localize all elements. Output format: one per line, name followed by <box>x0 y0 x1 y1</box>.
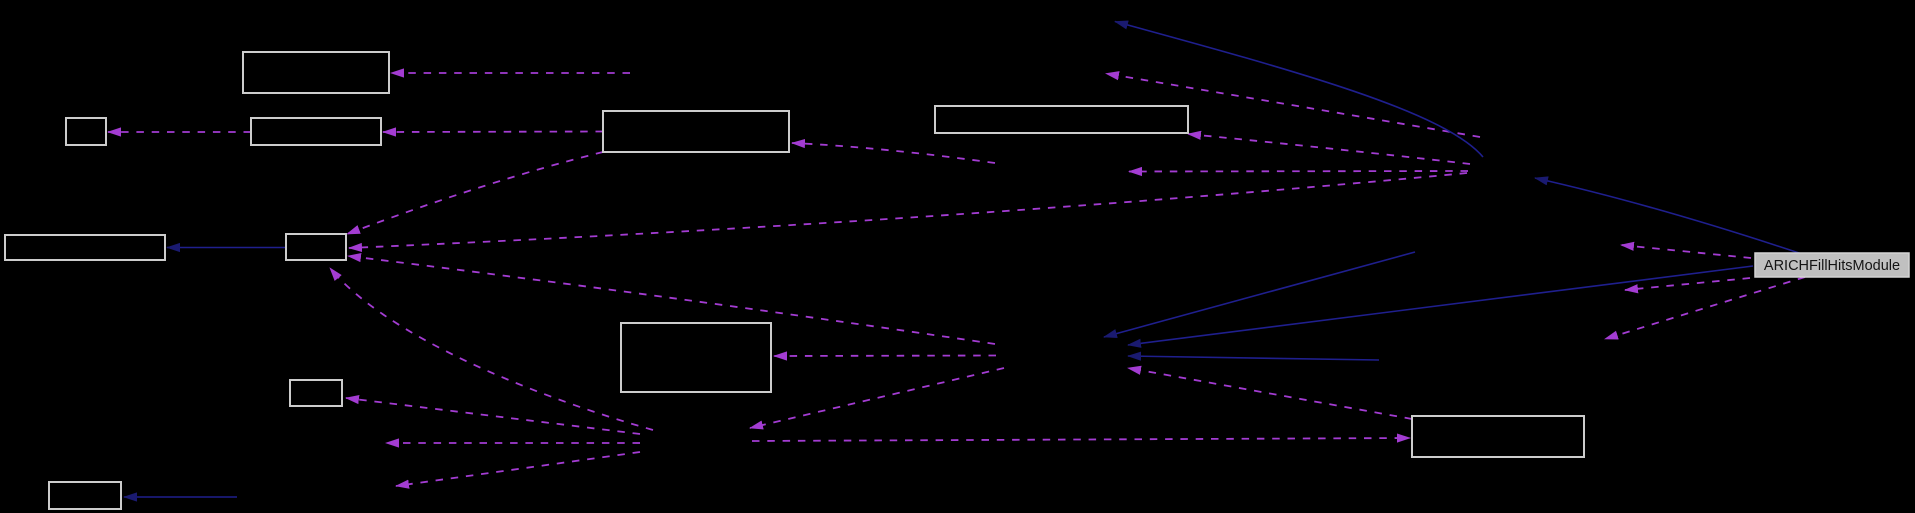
svg-text:ARICHFillHitsModule: ARICHFillHitsModule <box>1764 258 1900 274</box>
